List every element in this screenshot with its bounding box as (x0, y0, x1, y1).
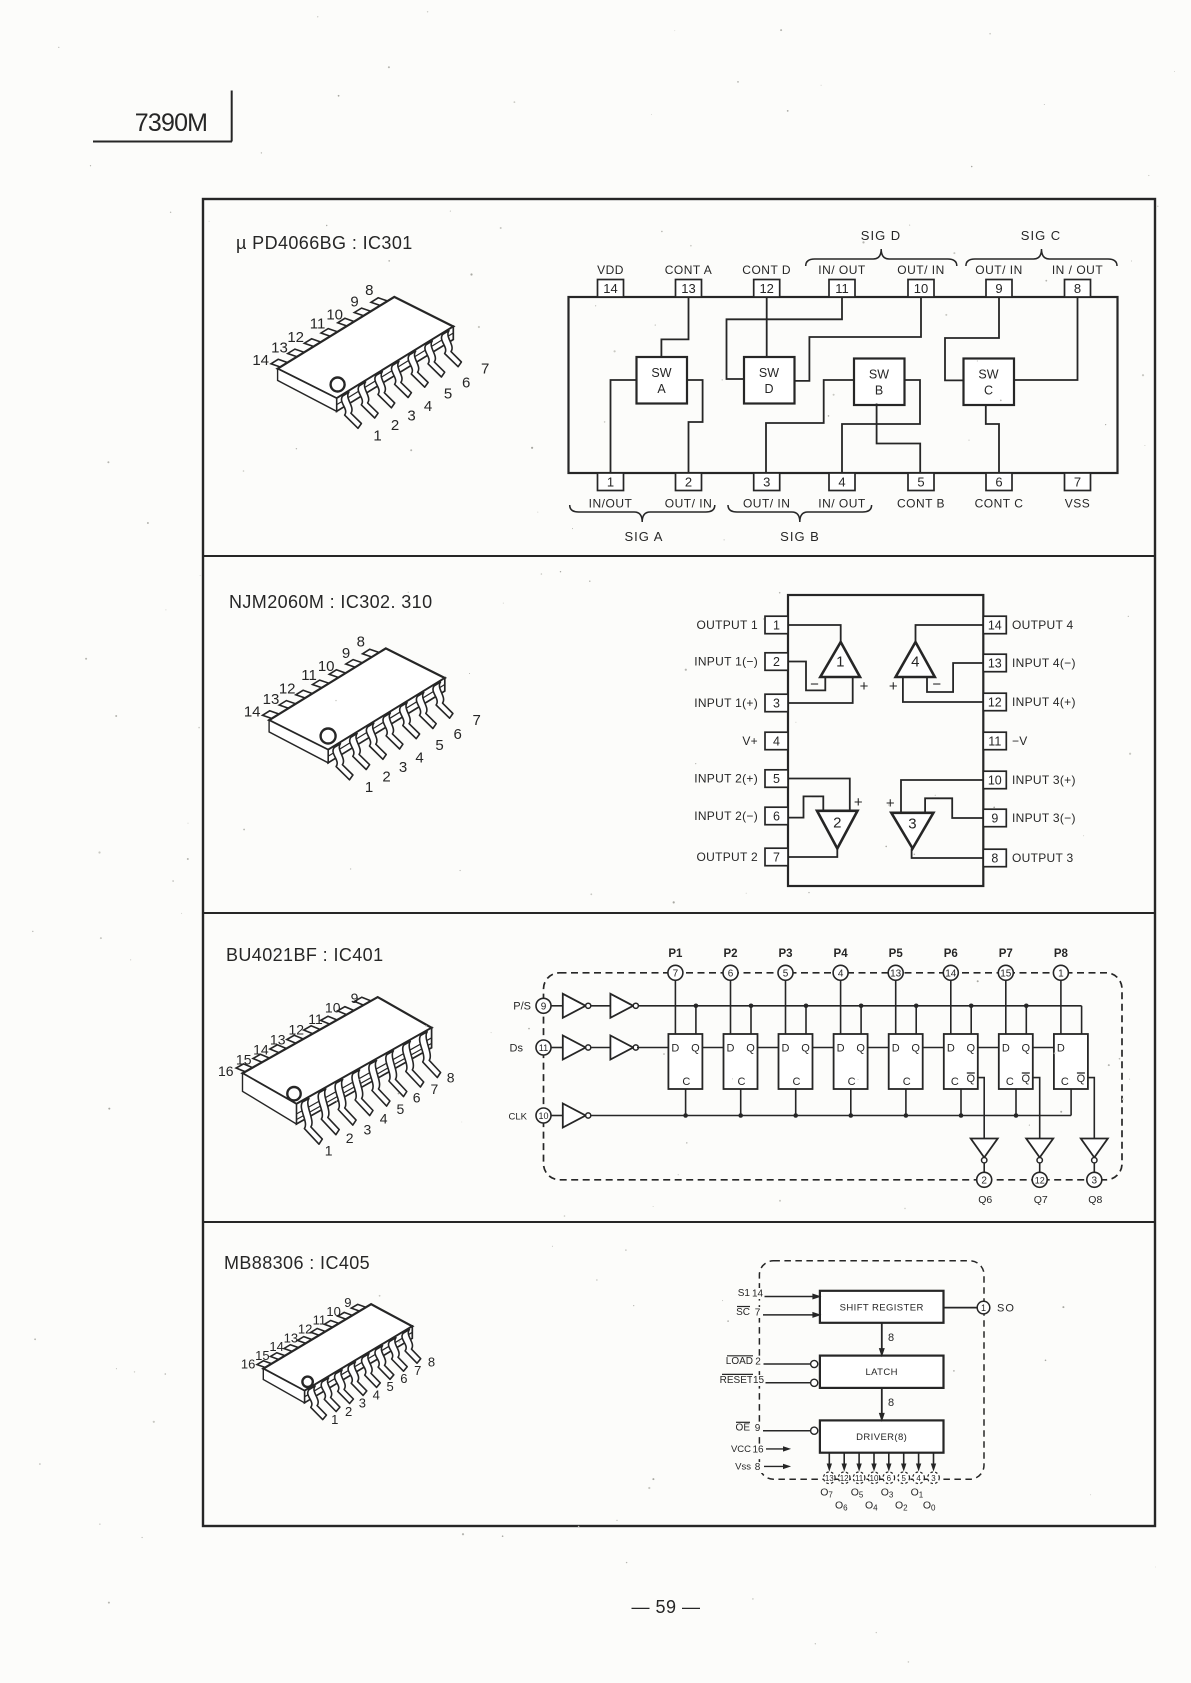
svg-text:12: 12 (279, 681, 296, 698)
svg-text:16: 16 (752, 1444, 764, 1455)
svg-text:14: 14 (945, 969, 957, 980)
svg-text:−: − (931, 790, 940, 807)
svg-text:15: 15 (753, 1375, 765, 1386)
svg-text:P8: P8 (1054, 948, 1069, 960)
svg-text:3: 3 (931, 1474, 936, 1483)
svg-text:+: + (854, 794, 863, 811)
svg-text:1: 1 (325, 1142, 333, 1158)
svg-text:9: 9 (991, 812, 998, 826)
svg-text:7: 7 (1074, 475, 1081, 490)
svg-text:12: 12 (988, 696, 1002, 710)
svg-text:10: 10 (318, 658, 335, 675)
svg-text:Q: Q (1022, 1043, 1031, 1055)
svg-text:4: 4 (911, 653, 919, 670)
svg-text:— 59 —: — 59 — (631, 1597, 700, 1617)
svg-text:Ds: Ds (510, 1043, 524, 1055)
svg-text:1: 1 (981, 1303, 986, 1313)
svg-text:−: − (932, 676, 941, 693)
svg-text:NJM2060M : IC302. 310: NJM2060M : IC302. 310 (229, 592, 433, 612)
svg-text:Q: Q (746, 1043, 755, 1055)
svg-text:D: D (837, 1043, 845, 1055)
svg-text:INPUT 4(−): INPUT 4(−) (1012, 656, 1076, 670)
svg-text:3: 3 (908, 816, 916, 833)
svg-text:9: 9 (342, 645, 350, 662)
svg-text:9: 9 (995, 281, 1002, 296)
svg-text:7: 7 (673, 969, 679, 980)
svg-text:6: 6 (995, 475, 1002, 490)
svg-text:VCC: VCC (731, 1444, 751, 1455)
svg-text:LATCH: LATCH (865, 1367, 897, 1378)
svg-text:4: 4 (838, 969, 844, 980)
svg-text:INPUT 1(+): INPUT 1(+) (694, 696, 758, 710)
svg-text:+: + (886, 795, 895, 812)
svg-text:SW: SW (651, 366, 671, 380)
svg-text:OUT/ IN: OUT/ IN (743, 497, 791, 511)
svg-text:10: 10 (326, 1304, 340, 1319)
svg-text:V+: V+ (742, 734, 758, 748)
svg-text:2: 2 (755, 1357, 761, 1368)
svg-text:C: C (984, 384, 993, 398)
svg-text:Q: Q (911, 1043, 920, 1055)
svg-text:3: 3 (763, 475, 770, 490)
svg-text:3: 3 (399, 759, 407, 776)
svg-text:B: B (875, 384, 883, 398)
svg-text:C: C (903, 1076, 911, 1088)
svg-text:S1: S1 (738, 1288, 751, 1299)
svg-text:Vss: Vss (735, 1462, 751, 1473)
svg-text:10: 10 (538, 1111, 548, 1121)
svg-text:4: 4 (424, 398, 432, 415)
svg-text:2: 2 (773, 655, 780, 669)
svg-text:C: C (1061, 1076, 1069, 1088)
svg-text:INPUT 4(+): INPUT 4(+) (1012, 695, 1076, 709)
svg-text:1: 1 (365, 779, 373, 796)
svg-text:13: 13 (271, 340, 288, 357)
svg-text:10: 10 (988, 774, 1002, 788)
svg-text:9: 9 (351, 990, 359, 1006)
svg-text:11: 11 (835, 281, 849, 296)
svg-text:5: 5 (435, 737, 443, 754)
svg-text:14: 14 (269, 1339, 283, 1354)
svg-text:1: 1 (331, 1412, 338, 1427)
svg-text:2: 2 (346, 1130, 354, 1146)
svg-text:Q: Q (967, 1073, 976, 1085)
svg-text:8: 8 (365, 282, 373, 299)
svg-text:7: 7 (473, 712, 481, 729)
svg-text:11: 11 (301, 667, 317, 684)
svg-text:SC: SC (736, 1307, 750, 1318)
svg-text:SHIFT REGISTER: SHIFT REGISTER (840, 1302, 924, 1313)
svg-text:D: D (947, 1043, 955, 1055)
svg-text:O6: O6 (835, 1499, 848, 1512)
svg-text:Q: Q (967, 1043, 976, 1055)
svg-text:O0: O0 (923, 1499, 936, 1512)
svg-text:7: 7 (773, 851, 780, 865)
svg-text:P5: P5 (889, 948, 904, 960)
svg-text:16: 16 (241, 1357, 255, 1372)
svg-text:P/S: P/S (513, 1001, 531, 1013)
svg-text:4: 4 (773, 735, 780, 749)
svg-text:2: 2 (345, 1404, 352, 1419)
svg-text:OUT/ IN: OUT/ IN (975, 263, 1023, 277)
svg-text:OUTPUT 1: OUTPUT 1 (696, 618, 758, 632)
svg-text:D: D (782, 1043, 790, 1055)
svg-text:OUTPUT 4: OUTPUT 4 (1012, 618, 1074, 632)
svg-text:6: 6 (413, 1090, 421, 1106)
svg-text:13: 13 (681, 281, 695, 296)
svg-text:O7: O7 (820, 1487, 833, 1500)
svg-text:3: 3 (1092, 1176, 1098, 1187)
svg-text:D: D (1002, 1043, 1010, 1055)
svg-text:2: 2 (833, 814, 841, 831)
svg-text:Q6: Q6 (978, 1194, 992, 1206)
svg-text:12: 12 (298, 1322, 312, 1337)
svg-text:4: 4 (916, 1474, 921, 1483)
svg-text:13: 13 (270, 1031, 286, 1047)
svg-text:INPUT 3(−): INPUT 3(−) (1012, 811, 1076, 825)
svg-text:2: 2 (382, 769, 390, 786)
svg-text:CONT B: CONT B (897, 497, 945, 511)
svg-text:15: 15 (255, 1348, 269, 1363)
svg-text:C: C (682, 1076, 690, 1088)
svg-text:9: 9 (541, 1001, 547, 1012)
svg-text:6: 6 (887, 1474, 892, 1483)
svg-text:C: C (848, 1076, 856, 1088)
svg-text:IN / OUT: IN / OUT (1052, 263, 1104, 277)
svg-text:1: 1 (1058, 969, 1064, 980)
svg-text:Q: Q (856, 1043, 865, 1055)
svg-text:D: D (727, 1043, 735, 1055)
svg-text:11: 11 (855, 1474, 864, 1483)
svg-text:14: 14 (752, 1289, 764, 1300)
svg-text:−: − (810, 676, 819, 693)
svg-text:9: 9 (755, 1423, 761, 1434)
svg-text:8: 8 (447, 1070, 455, 1086)
svg-text:6: 6 (400, 1371, 407, 1386)
svg-text:INPUT 2(+): INPUT 2(+) (694, 772, 758, 786)
svg-text:SW: SW (869, 368, 889, 382)
svg-text:14: 14 (244, 703, 261, 720)
svg-text:14: 14 (252, 352, 269, 369)
svg-text:SW: SW (978, 368, 998, 382)
svg-text:−V: −V (1012, 734, 1028, 748)
svg-text:5: 5 (397, 1101, 405, 1117)
svg-text:O1: O1 (911, 1487, 924, 1500)
svg-text:D: D (892, 1043, 900, 1055)
svg-text:6: 6 (454, 726, 462, 743)
svg-text:D: D (1057, 1043, 1065, 1055)
svg-text:5: 5 (783, 969, 789, 980)
svg-text:P2: P2 (723, 948, 737, 960)
svg-text:1: 1 (773, 619, 780, 633)
svg-text:12: 12 (1035, 1176, 1045, 1186)
svg-text:CONT C: CONT C (975, 497, 1024, 511)
svg-text:SIG C: SIG C (1021, 228, 1061, 243)
svg-text:DRIVER(8): DRIVER(8) (856, 1432, 907, 1443)
svg-text:5: 5 (917, 475, 924, 490)
svg-text:SIG A: SIG A (625, 529, 664, 544)
svg-text:6: 6 (773, 810, 780, 824)
svg-text:7: 7 (431, 1081, 439, 1097)
svg-text:13: 13 (988, 657, 1002, 671)
svg-text:11: 11 (308, 1011, 323, 1027)
svg-text:A: A (657, 382, 666, 396)
svg-text:P3: P3 (778, 948, 792, 960)
svg-text:INPUT 2(−): INPUT 2(−) (694, 809, 758, 823)
svg-text:IN/ OUT: IN/ OUT (818, 263, 866, 277)
svg-text:9: 9 (350, 294, 358, 311)
svg-text:8: 8 (428, 1355, 435, 1370)
svg-text:8: 8 (888, 1397, 894, 1409)
svg-text:OUTPUT 3: OUTPUT 3 (1012, 851, 1074, 865)
svg-text:13: 13 (263, 691, 280, 708)
svg-text:4: 4 (415, 749, 423, 766)
svg-text:Q7: Q7 (1034, 1194, 1048, 1206)
svg-text:10: 10 (325, 1000, 341, 1016)
svg-text:Q8: Q8 (1088, 1194, 1102, 1206)
svg-text:8: 8 (357, 634, 365, 651)
svg-text:+: + (860, 678, 869, 695)
svg-text:13: 13 (825, 1474, 834, 1483)
svg-text:1: 1 (836, 653, 844, 670)
svg-text:12: 12 (289, 1022, 305, 1038)
svg-text:D: D (671, 1043, 679, 1055)
svg-text:2: 2 (981, 1176, 987, 1187)
svg-text:+: + (889, 678, 898, 695)
svg-text:7390M: 7390M (135, 109, 207, 137)
svg-text:14: 14 (988, 619, 1002, 633)
svg-text:OUT/ IN: OUT/ IN (665, 497, 713, 511)
svg-text:D: D (764, 382, 773, 396)
svg-text:VSS: VSS (1065, 497, 1091, 511)
svg-text:15: 15 (236, 1052, 252, 1068)
svg-text:P1: P1 (668, 948, 683, 960)
svg-text:14: 14 (603, 281, 617, 296)
svg-text:Q: Q (801, 1043, 810, 1055)
svg-text:5: 5 (773, 772, 780, 786)
svg-text:2: 2 (391, 417, 399, 434)
svg-text:7: 7 (414, 1363, 421, 1378)
svg-text:P6: P6 (944, 948, 958, 960)
svg-text:O5: O5 (851, 1487, 864, 1500)
svg-text:O3: O3 (881, 1487, 894, 1500)
svg-text:MB88306 : IC405: MB88306 : IC405 (224, 1253, 370, 1273)
svg-text:OUT/ IN: OUT/ IN (897, 263, 945, 277)
svg-text:INPUT 1(−): INPUT 1(−) (694, 655, 758, 669)
svg-text:3: 3 (364, 1122, 372, 1138)
svg-text:O2: O2 (895, 1499, 908, 1512)
svg-text:−: − (811, 789, 820, 806)
svg-text:12: 12 (287, 329, 304, 346)
svg-text:15: 15 (1000, 969, 1012, 980)
svg-text:P7: P7 (999, 948, 1013, 960)
svg-text:CONT D: CONT D (742, 263, 791, 277)
svg-text:C: C (951, 1076, 959, 1088)
svg-text:SIG B: SIG B (780, 529, 820, 544)
svg-text:16: 16 (218, 1063, 234, 1079)
svg-text:6: 6 (728, 969, 734, 980)
svg-text:12: 12 (840, 1474, 849, 1483)
svg-text:INPUT 3(+): INPUT 3(+) (1012, 773, 1076, 787)
svg-text:5: 5 (386, 1379, 393, 1394)
svg-text:8: 8 (888, 1332, 894, 1344)
svg-text:CONT A: CONT A (665, 263, 712, 277)
svg-text:RESET: RESET (720, 1375, 753, 1386)
svg-text:9: 9 (344, 1295, 351, 1310)
svg-text:11: 11 (539, 1043, 548, 1053)
svg-text:BU4021BF : IC401: BU4021BF : IC401 (226, 945, 383, 965)
svg-text:Q: Q (1022, 1073, 1031, 1085)
svg-text:8: 8 (755, 1462, 761, 1473)
svg-text:µ PD4066BG : IC301: µ PD4066BG : IC301 (236, 233, 413, 253)
svg-text:2: 2 (685, 475, 692, 490)
svg-text:Q: Q (691, 1043, 700, 1055)
svg-text:IN/ OUT: IN/ OUT (818, 497, 866, 511)
svg-text:4: 4 (380, 1110, 388, 1126)
svg-text:13: 13 (890, 969, 902, 980)
svg-text:12: 12 (759, 281, 773, 296)
svg-text:SIG D: SIG D (861, 228, 901, 243)
svg-text:SW: SW (759, 366, 779, 380)
svg-text:C: C (793, 1076, 801, 1088)
svg-text:13: 13 (284, 1330, 298, 1345)
svg-text:OE: OE (736, 1423, 751, 1434)
svg-text:7: 7 (481, 361, 489, 378)
svg-text:5: 5 (901, 1474, 906, 1483)
svg-text:P4: P4 (834, 948, 849, 960)
svg-text:8: 8 (991, 852, 998, 866)
svg-text:LOAD: LOAD (726, 1356, 753, 1367)
svg-text:IN/OUT: IN/OUT (589, 497, 633, 511)
svg-text:SO: SO (997, 1303, 1015, 1315)
svg-text:VDD: VDD (597, 263, 624, 277)
svg-text:C: C (1006, 1076, 1014, 1088)
svg-text:3: 3 (359, 1396, 366, 1411)
svg-text:10: 10 (914, 281, 928, 296)
svg-text:4: 4 (373, 1388, 380, 1403)
svg-text:11: 11 (310, 316, 326, 333)
svg-text:4: 4 (838, 475, 845, 490)
svg-text:7: 7 (755, 1307, 761, 1318)
svg-text:OUTPUT 2: OUTPUT 2 (696, 850, 758, 864)
svg-text:3: 3 (407, 408, 415, 425)
svg-text:6: 6 (462, 374, 470, 391)
svg-text:11: 11 (988, 735, 1001, 749)
svg-text:CLK: CLK (509, 1112, 528, 1123)
svg-text:C: C (738, 1076, 746, 1088)
svg-text:11: 11 (313, 1313, 327, 1328)
svg-text:O4: O4 (865, 1499, 878, 1512)
svg-text:Q: Q (1077, 1073, 1086, 1085)
svg-text:1: 1 (607, 475, 614, 490)
svg-text:8: 8 (1074, 281, 1081, 296)
svg-text:10: 10 (870, 1474, 879, 1483)
svg-text:3: 3 (773, 697, 780, 711)
svg-text:10: 10 (326, 307, 343, 324)
svg-text:14: 14 (253, 1041, 269, 1057)
svg-text:1: 1 (373, 428, 381, 445)
svg-text:5: 5 (444, 385, 452, 402)
